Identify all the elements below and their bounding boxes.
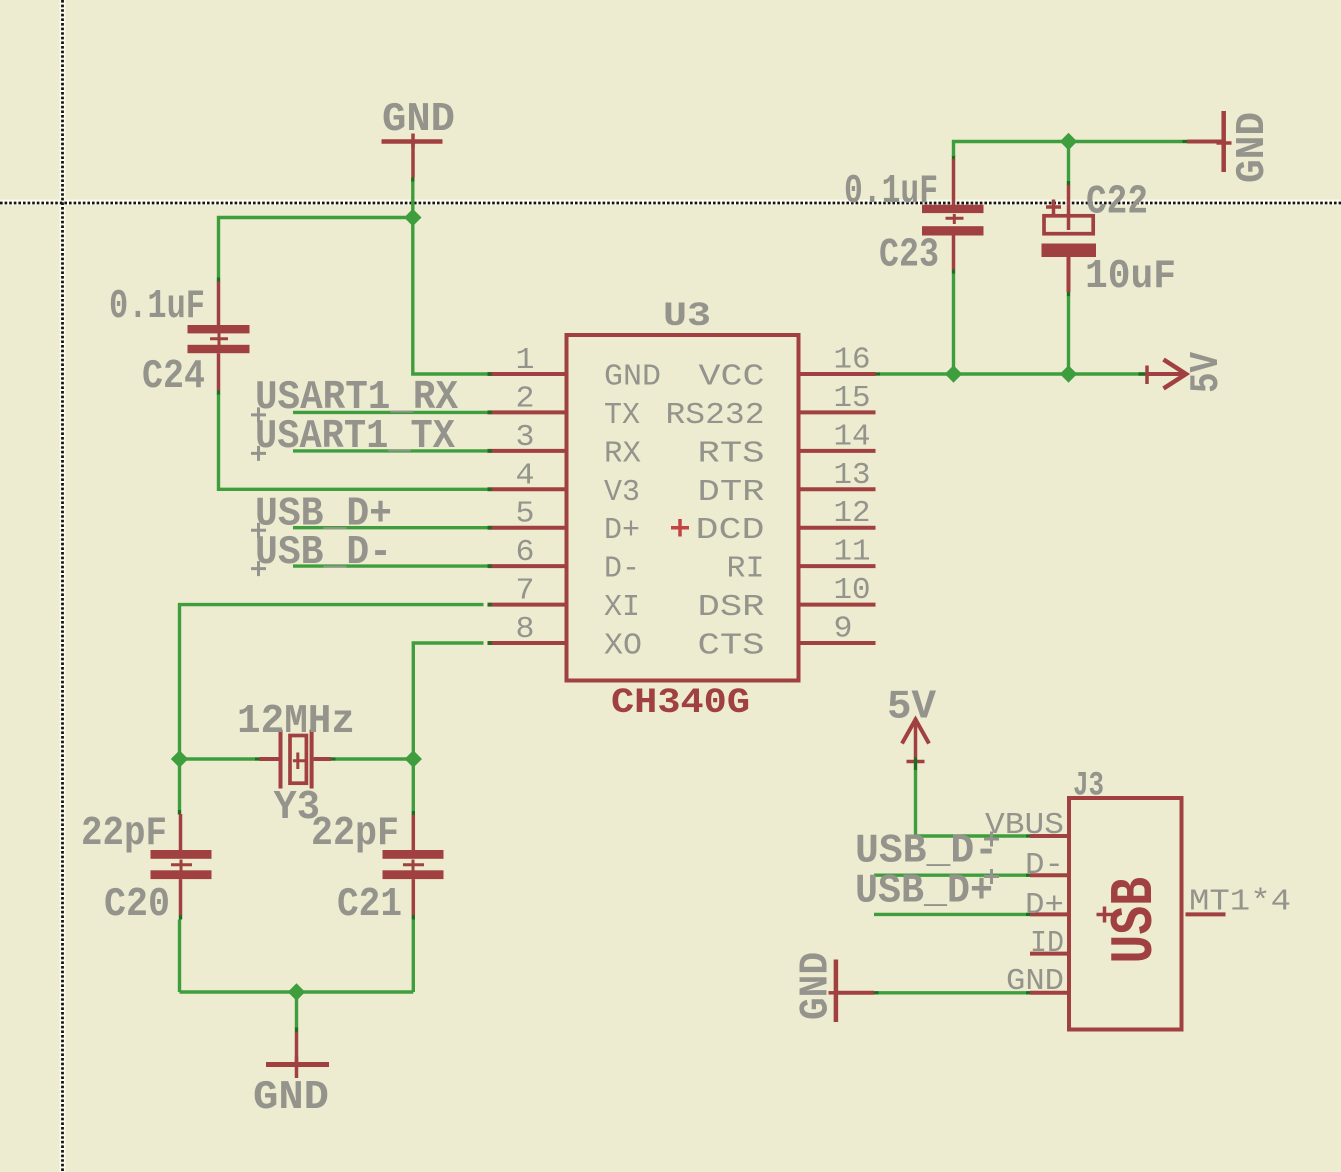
wire crystal right lead to node: [336, 757, 414, 760]
svg-text:DSR: DSR: [698, 590, 765, 625]
junction node crystal right: [405, 750, 422, 767]
svg-text:2: 2: [516, 381, 535, 416]
capacitor C20: [151, 814, 212, 920]
wire C21 to bottom rail: [412, 920, 415, 993]
frame white band horizontal: [0, 200, 1341, 206]
wire USB_D+ to D+ pin: [874, 913, 1031, 916]
svg-text:0.1uF: 0.1uF: [109, 284, 205, 330]
svg-text:22pF: 22pF: [81, 811, 167, 857]
capacitor C22 polarized: [1042, 185, 1097, 297]
U3 pin 10: [799, 603, 876, 607]
svg-text:D+: D+: [604, 513, 640, 548]
svg-text:C22: C22: [1086, 180, 1148, 226]
svg-text:D+: D+: [1025, 888, 1064, 923]
IC U3 body: [567, 335, 799, 681]
capacitor C23: [922, 159, 984, 274]
svg-text:USART1_TX: USART1_TX: [255, 414, 455, 460]
U3 pin 4: [488, 488, 567, 491]
J3 pin GND: [1030, 991, 1067, 995]
U3 origin cross (DCD row): [671, 519, 689, 537]
wire C20 to bottom rail: [178, 920, 181, 993]
U3 pin 7: [488, 603, 567, 606]
svg-text:ID: ID: [1030, 926, 1064, 961]
junction node bottom rail: [288, 983, 305, 1000]
wire 5V to VBUS pin: [914, 758, 1031, 838]
net label USART1_TX: [251, 414, 455, 461]
svg-text:8: 8: [516, 612, 535, 647]
svg-text:3: 3: [516, 420, 535, 455]
J3 pin ID: [1030, 952, 1067, 956]
svg-text:GND: GND: [604, 360, 661, 395]
J3 pin MT1*4: [1186, 912, 1226, 916]
svg-text:XI: XI: [604, 590, 640, 625]
supply symbol 5V up arrow: [902, 718, 929, 762]
svg-text:C20: C20: [104, 882, 170, 928]
svg-text:U3: U3: [663, 297, 711, 336]
net label USB_D+ (left): [251, 492, 392, 538]
svg-text:16: 16: [834, 343, 871, 378]
capacitor C24: [188, 278, 250, 396]
net label USB_D- (left): [251, 530, 392, 576]
U3 pin 6: [488, 564, 567, 567]
wire USART1_RX to pin 2: [293, 411, 488, 414]
wire node to bottom GND: [295, 992, 298, 1032]
wire junction down to pin 1: [413, 218, 488, 375]
svg-text:CH340G: CH340G: [611, 683, 750, 723]
svg-text:GND: GND: [382, 97, 455, 143]
svg-text:RTS: RTS: [698, 436, 765, 471]
svg-text:C23: C23: [879, 233, 939, 279]
svg-text:USB_D+: USB_D+: [855, 869, 993, 915]
svg-text:5V: 5V: [887, 685, 936, 731]
J3 pin VBUS: [1030, 834, 1067, 838]
frame dotted line horizontal: [0, 202, 1341, 205]
svg-text:DCD: DCD: [696, 513, 765, 548]
svg-text:15: 15: [834, 381, 871, 416]
wire C23 to 5V rail: [952, 274, 955, 375]
ground symbol right (GND): [1187, 111, 1232, 172]
svg-text:GND: GND: [1230, 112, 1276, 183]
ground symbol top (GND): [382, 134, 443, 178]
ground symbol J3 (GND): [829, 960, 875, 1023]
svg-text:GND: GND: [1006, 964, 1064, 999]
U3 pin 14: [799, 449, 876, 453]
junction node below C22: [1060, 365, 1077, 382]
svg-text:9: 9: [834, 612, 853, 647]
crystal Y3: [260, 730, 336, 789]
U3 pin 2: [488, 411, 567, 414]
svg-text:22pF: 22pF: [311, 811, 399, 857]
svg-text:5V: 5V: [1184, 352, 1230, 393]
svg-text:D-: D-: [1025, 848, 1064, 883]
connector J3 body: [1069, 798, 1182, 1030]
U3 pin 11: [799, 564, 876, 568]
wire C22 to 5V rail: [1067, 296, 1070, 374]
svg-text:C24: C24: [142, 354, 205, 400]
U3 pin 16: [799, 372, 876, 376]
U3 pin 9: [799, 641, 876, 645]
U3 pin 5: [488, 526, 567, 529]
net label USB_D- (J3): [855, 829, 999, 875]
svg-text:CTS: CTS: [698, 629, 765, 664]
U3 pin 3: [488, 449, 567, 452]
svg-text:GND: GND: [253, 1075, 329, 1121]
frame white band vertical: [60, 0, 66, 1172]
junction node crystal left: [171, 750, 188, 767]
wire GND to junction: [411, 178, 414, 218]
svg-text:1: 1: [516, 343, 535, 378]
svg-text:0.1uF: 0.1uF: [844, 169, 938, 215]
svg-text:RI: RI: [727, 552, 765, 587]
svg-text:10: 10: [834, 573, 871, 608]
svg-text:12MHz: 12MHz: [237, 699, 355, 745]
svg-text:11: 11: [834, 535, 871, 570]
svg-text:RS232: RS232: [666, 398, 765, 433]
svg-text:7: 7: [516, 574, 535, 609]
wire pin 8 to crystal right node: [413, 643, 483, 759]
svg-text:4: 4: [516, 458, 535, 493]
svg-text:MT1*4: MT1*4: [1189, 885, 1291, 920]
wire junction to C24 top: [219, 218, 413, 278]
J3 origin cross: [1097, 907, 1113, 923]
wire GND to J3 GND pin: [874, 991, 1031, 994]
U3 pin 1: [488, 372, 567, 375]
svg-text:TX: TX: [604, 398, 640, 433]
svg-text:GND: GND: [794, 952, 840, 1020]
wire USART1_TX to pin 3: [293, 449, 488, 452]
svg-text:RX: RX: [604, 436, 641, 471]
net label USART1_RX: [251, 375, 458, 422]
svg-text:14: 14: [834, 419, 871, 454]
junction node below C23: [945, 365, 962, 382]
wire junction to C22 top: [1067, 142, 1070, 186]
svg-text:5: 5: [516, 497, 535, 532]
wire USB_D- to D- pin: [874, 874, 1031, 877]
svg-text:J3: J3: [1073, 767, 1104, 806]
U3 pin 15: [799, 410, 876, 414]
wire bottom rail: [180, 990, 414, 993]
wire C24 to pin 4: [219, 395, 488, 490]
wire pin 7 to crystal left node: [180, 605, 484, 759]
svg-text:12: 12: [834, 496, 871, 531]
frame dotted line vertical: [61, 0, 64, 1172]
svg-text:C21: C21: [337, 882, 402, 928]
wire C23 top to GND rail: [952, 140, 1187, 160]
junction node at GND/C24/pin1: [404, 209, 421, 226]
J3 pin D+: [1030, 912, 1067, 916]
wire pin 16 to 5V arrow: [876, 372, 1148, 375]
svg-text:10uF: 10uF: [1085, 254, 1176, 300]
svg-text:USB_D-: USB_D-: [255, 530, 392, 576]
wire node to crystal left lead: [180, 757, 260, 760]
supply symbol 5V right arrow: [1147, 360, 1186, 389]
svg-text:6: 6: [516, 535, 535, 570]
svg-text:DTR: DTR: [698, 475, 765, 510]
U3 pin 12: [799, 526, 876, 530]
svg-text:VCC: VCC: [699, 360, 765, 395]
wire USB_D+ to pin 5: [293, 526, 488, 529]
U3 pin 13: [799, 487, 876, 491]
junction node above C22: [1060, 133, 1077, 150]
wire USB_D- to pin 6: [293, 564, 488, 567]
svg-text:13: 13: [834, 458, 871, 493]
ground symbol bottom (GND): [266, 1032, 329, 1078]
svg-text:XO: XO: [604, 629, 642, 664]
wire crystal left node to C20: [178, 759, 181, 815]
svg-text:USB: USB: [1102, 877, 1170, 964]
net label USB_D+ (J3): [855, 869, 999, 915]
J3 pin D-: [1030, 873, 1067, 877]
U3 pin 8: [488, 641, 567, 644]
svg-text:D-: D-: [604, 552, 640, 587]
capacitor C21: [383, 815, 444, 920]
wire crystal right node to C21: [412, 759, 415, 816]
svg-text:V3: V3: [604, 475, 640, 510]
